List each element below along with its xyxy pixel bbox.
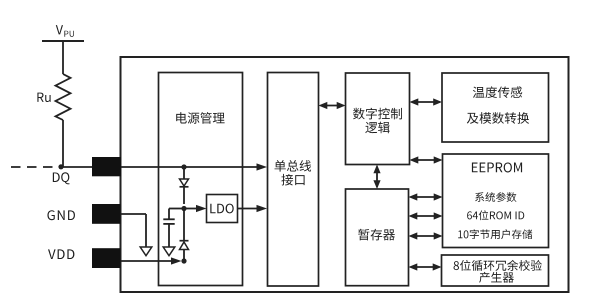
- capacitor ground arrow (open triangle): [163, 247, 175, 256]
- label Ru: [37, 93, 50, 102]
- bus 1-wire interface <-> digital control: [319, 102, 346, 109]
- wire LDO output to 1-wire interface with arrowhead: [238, 205, 268, 212]
- capacitor Cpp: [163, 209, 184, 248]
- block CRC generator 8位循环冗余校验产生器: [442, 255, 549, 286]
- label LDO: [210, 204, 233, 214]
- arrowhead into 1-wire interface: [257, 163, 268, 170]
- label 数字控制: [353, 108, 402, 120]
- label VDD: [48, 249, 74, 259]
- label EEPROM: [472, 162, 522, 172]
- label 8位循环冗余校验: [454, 260, 542, 271]
- wire DQ across to 1-wire interface: [121, 166, 259, 168]
- label 温度传感: [473, 86, 522, 98]
- node junction top of diode chain: [181, 164, 186, 169]
- node VPU power rail: [42, 41, 84, 74]
- bus scratchpad <-> CRC generator: [409, 263, 442, 270]
- block power management 电源管理: [159, 73, 243, 286]
- diode D1 (DQ side): [180, 167, 189, 204]
- wire junction to LDO with arrowhead: [184, 205, 207, 212]
- pin DQ pad: [92, 157, 121, 176]
- label 电源管理: [176, 112, 224, 124]
- label 暂存器: [358, 229, 395, 241]
- wire DQ to pin: [61, 166, 93, 168]
- node junction mid (LDO tap): [181, 206, 186, 211]
- label 逻辑: [365, 122, 389, 134]
- label 系统参数: [475, 192, 516, 202]
- label DQ: [53, 172, 70, 184]
- bus digital control <-> temp sensor: [410, 98, 443, 105]
- pin VDD pad: [92, 248, 121, 268]
- bus digital control <-> scratchpad (vertical): [373, 165, 380, 190]
- label GND: [47, 210, 74, 220]
- label 10字节用户存储: [458, 229, 532, 239]
- label VPU: [56, 25, 74, 37]
- node junction bottom (VDD): [181, 258, 186, 263]
- bus scratchpad <-> EEPROM line 3: [409, 232, 443, 239]
- wire GND pin to ground arrow: [121, 214, 147, 247]
- wire dashed DQ line: [11, 166, 61, 168]
- wire VDD pin to junction with arrowhead: [121, 257, 182, 264]
- bus digital control <-> EEPROM: [410, 156, 443, 163]
- node DQ junction dot: [58, 164, 63, 169]
- block 1-wire interface 单总线接口: [268, 73, 319, 287]
- label 接口: [281, 174, 304, 186]
- ground arrow on GND net (open triangle): [140, 247, 152, 256]
- bus scratchpad <-> EEPROM line 2: [409, 212, 443, 219]
- chip outline box: [121, 57, 569, 292]
- regulator LDO box: [207, 195, 238, 223]
- pin GND pad: [92, 204, 121, 224]
- resistor Ru: [56, 74, 71, 167]
- block scratchpad 暂存器: [346, 189, 409, 286]
- block temperature sensing & ADC 温度传感及模数转换: [442, 73, 549, 142]
- block EEPROM: [443, 154, 549, 248]
- label 单总线: [274, 160, 311, 172]
- label 64位ROM ID: [467, 210, 524, 220]
- diode D2 (VDD side): [180, 209, 189, 262]
- block digital control logic 数字控制逻辑: [346, 73, 410, 165]
- bus scratchpad <-> EEPROM line 1: [409, 193, 443, 200]
- label 及模数转换: [467, 112, 529, 124]
- label 产生器: [479, 272, 514, 283]
